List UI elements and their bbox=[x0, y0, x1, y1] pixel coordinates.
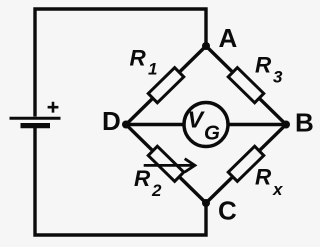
R2 wiper arrow shaft bbox=[144, 164, 193, 167]
wire: galvanometer branch D-B bbox=[126, 123, 286, 126]
R2 wiper arrowhead bbox=[185, 159, 195, 172]
wire: bridge arm C-D bbox=[126, 125, 206, 204]
wire: bridge arm A-B bbox=[206, 46, 286, 125]
svg-text:V: V bbox=[188, 106, 206, 132]
svg-text:D: D bbox=[102, 106, 121, 136]
node D junction dot bbox=[122, 121, 130, 129]
wire: bottom loop from battery - terminal down and across to node C bbox=[35, 128, 206, 235]
node C junction dot bbox=[202, 199, 210, 207]
svg-text:C: C bbox=[218, 196, 237, 226]
svg-text:x: x bbox=[272, 180, 284, 199]
resistor R2 variable (box, arm D-C) bbox=[148, 146, 184, 181]
svg-text:1: 1 bbox=[148, 60, 157, 79]
resistor R3 (box, arm A-B) bbox=[228, 68, 264, 103]
wire: bridge arm D-A bbox=[126, 46, 206, 125]
svg-text:3: 3 bbox=[273, 68, 283, 87]
wire: bridge arm B-C bbox=[206, 125, 286, 204]
svg-text:B: B bbox=[295, 108, 314, 138]
battery positive plate (long) bbox=[10, 117, 61, 120]
svg-text:A: A bbox=[219, 23, 238, 53]
galvanometer U1 circle bbox=[184, 103, 228, 147]
svg-text:R: R bbox=[255, 165, 272, 190]
node B junction dot bbox=[282, 121, 290, 129]
node A junction dot bbox=[202, 42, 210, 50]
svg-text:2: 2 bbox=[151, 181, 162, 200]
resistor Rx (box, arm C-B) bbox=[228, 146, 264, 181]
wire: top loop from node A up and across to battery + terminal bbox=[35, 9, 206, 117]
battery + polarity sign bbox=[48, 102, 59, 113]
svg-text:G: G bbox=[204, 121, 220, 144]
svg-text:R: R bbox=[255, 53, 272, 78]
svg-text:R: R bbox=[130, 46, 147, 71]
svg-text:R: R bbox=[134, 166, 151, 191]
battery negative plate (short thick) bbox=[21, 123, 51, 128]
resistor R1 (box, arm D-A) bbox=[148, 68, 184, 103]
